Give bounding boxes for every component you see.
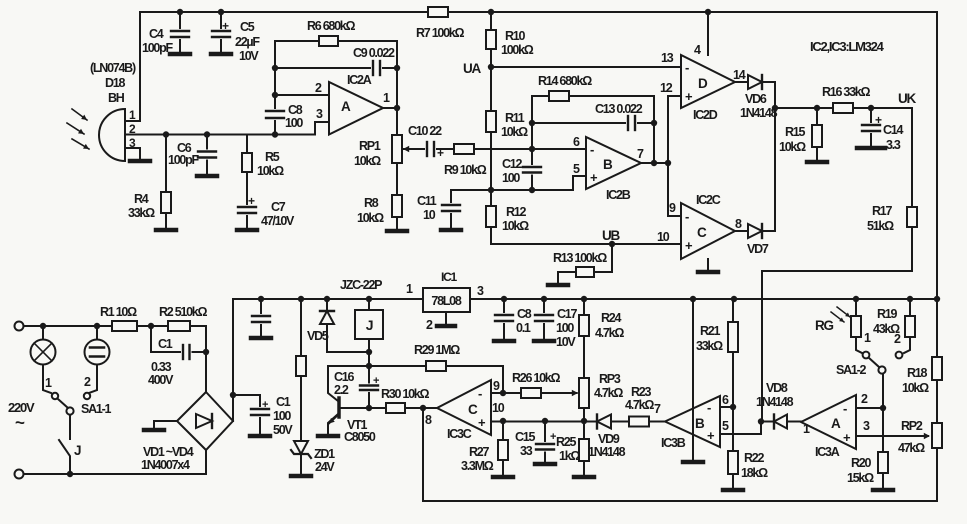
svg-text:C5: C5 (240, 20, 255, 34)
svg-text:4.7kΩ: 4.7kΩ (594, 386, 623, 400)
svg-text:R20: R20 (851, 456, 871, 470)
svg-text:C15: C15 (515, 430, 535, 444)
svg-text:C16: C16 (334, 370, 354, 384)
svg-text:4.7kΩ: 4.7kΩ (595, 326, 624, 340)
svg-text:R13 100kΩ: R13 100kΩ (553, 251, 607, 265)
svg-text:R25: R25 (556, 435, 576, 449)
svg-text:+: + (550, 431, 556, 443)
svg-text:C1: C1 (158, 337, 173, 351)
svg-text:100: 100 (285, 116, 303, 130)
svg-text:1kΩ: 1kΩ (559, 449, 580, 463)
svg-text:ZD1: ZD1 (314, 447, 335, 461)
svg-text:VD5: VD5 (307, 329, 329, 343)
svg-text:R6 680kΩ: R6 680kΩ (307, 19, 356, 33)
svg-text:24V: 24V (315, 460, 335, 474)
svg-text:33: 33 (520, 444, 533, 458)
svg-text:14: 14 (733, 68, 746, 82)
svg-text:100: 100 (556, 321, 574, 335)
svg-text:VD7: VD7 (747, 242, 769, 256)
svg-text:R27: R27 (469, 445, 489, 459)
svg-text:+: + (373, 375, 379, 387)
svg-text:VD1 ~VD4: VD1 ~VD4 (143, 445, 194, 459)
svg-text:RP2: RP2 (901, 419, 923, 433)
svg-text:2.2: 2.2 (334, 383, 349, 397)
svg-text:400V: 400V (148, 373, 174, 387)
svg-text:R18: R18 (907, 366, 927, 380)
svg-text:78L08: 78L08 (431, 294, 461, 308)
svg-text:~: ~ (15, 413, 25, 432)
svg-text:C10 22: C10 22 (408, 124, 442, 138)
svg-text:C9 0.022: C9 0.022 (353, 46, 395, 60)
svg-text:IC2B: IC2B (606, 188, 631, 202)
svg-text:BH: BH (108, 91, 125, 105)
svg-text:UA: UA (463, 61, 481, 76)
svg-text:IC3C: IC3C (447, 427, 472, 441)
svg-text:IC2,IC3:LM324: IC2,IC3:LM324 (810, 39, 885, 54)
svg-text:R7 100kΩ: R7 100kΩ (416, 26, 465, 40)
svg-text:JZC-22P: JZC-22P (340, 278, 382, 292)
svg-text:C1: C1 (276, 395, 291, 409)
svg-text:IC1: IC1 (441, 270, 458, 284)
svg-text:1N4148: 1N4148 (740, 106, 778, 120)
svg-text:R15: R15 (785, 125, 805, 139)
svg-text:SA1-1: SA1-1 (81, 402, 111, 416)
svg-text:J: J (366, 317, 373, 333)
svg-text:IC2D: IC2D (693, 108, 718, 122)
svg-text:10kΩ: 10kΩ (257, 164, 284, 178)
svg-text:12: 12 (660, 81, 673, 95)
svg-text:10: 10 (423, 208, 436, 222)
svg-text:C4: C4 (149, 27, 164, 41)
svg-text:13: 13 (661, 51, 674, 65)
svg-text:50V: 50V (273, 423, 293, 437)
svg-text:C8050: C8050 (344, 430, 376, 444)
svg-text:R19: R19 (877, 307, 897, 321)
svg-text:R24: R24 (601, 311, 621, 325)
svg-text:10: 10 (657, 230, 670, 244)
svg-text:10kΩ: 10kΩ (357, 211, 384, 225)
svg-text:(LN074B): (LN074B) (90, 61, 136, 75)
svg-text:C11: C11 (417, 194, 437, 208)
svg-text:51kΩ: 51kΩ (867, 219, 894, 233)
svg-text:IC2C: IC2C (696, 193, 721, 207)
svg-text:3.3: 3.3 (886, 138, 901, 152)
svg-text:100pF: 100pF (142, 41, 173, 55)
svg-text:R23: R23 (631, 385, 651, 399)
svg-text:10kΩ: 10kΩ (354, 154, 381, 168)
svg-text:33kΩ: 33kΩ (128, 206, 155, 220)
svg-text:10V: 10V (556, 335, 576, 349)
svg-text:1N4007x4: 1N4007x4 (141, 458, 190, 472)
svg-text:RP1: RP1 (359, 139, 381, 153)
svg-text:R8: R8 (364, 196, 379, 210)
svg-text:33kΩ: 33kΩ (696, 339, 723, 353)
svg-text:+: + (262, 399, 268, 411)
svg-text:R22: R22 (744, 451, 764, 465)
svg-text:SA1-2: SA1-2 (836, 363, 866, 377)
svg-text:IC2A: IC2A (347, 73, 372, 87)
svg-text:R30 10kΩ: R30 10kΩ (381, 387, 430, 401)
svg-text:J: J (74, 443, 81, 458)
svg-text:47kΩ: 47kΩ (898, 441, 925, 455)
svg-text:10V: 10V (239, 49, 259, 63)
svg-text:100pF: 100pF (168, 153, 199, 167)
svg-text:RP3: RP3 (599, 372, 621, 386)
svg-text:47/10V: 47/10V (261, 214, 295, 228)
svg-text:R14 680kΩ: R14 680kΩ (538, 74, 592, 88)
svg-text:100kΩ: 100kΩ (501, 43, 534, 57)
svg-text:3.3MΩ: 3.3MΩ (461, 459, 494, 473)
svg-text:D18: D18 (105, 76, 125, 90)
svg-text:R5: R5 (265, 150, 280, 164)
svg-text:0.33: 0.33 (151, 360, 172, 374)
svg-text:R4: R4 (134, 192, 149, 206)
svg-text:1N4148: 1N4148 (588, 445, 626, 459)
svg-text:18kΩ: 18kΩ (741, 466, 768, 480)
svg-text:100: 100 (502, 171, 520, 185)
svg-text:R26 10kΩ: R26 10kΩ (512, 371, 561, 385)
svg-text:R10: R10 (505, 29, 525, 43)
svg-text:VD8: VD8 (766, 381, 788, 395)
svg-text:RG: RG (815, 318, 833, 333)
svg-text:100: 100 (273, 409, 291, 423)
svg-text:R12: R12 (506, 205, 526, 219)
svg-text:10kΩ: 10kΩ (902, 381, 929, 395)
svg-text:10kΩ: 10kΩ (502, 219, 529, 233)
svg-text:R9 10kΩ: R9 10kΩ (444, 163, 487, 177)
svg-text:0.1: 0.1 (516, 321, 531, 335)
svg-text:C7: C7 (271, 200, 286, 214)
svg-text:IC3B: IC3B (661, 436, 686, 450)
svg-text:R17: R17 (872, 204, 892, 218)
svg-text:C13 0.022: C13 0.022 (595, 102, 643, 116)
svg-text:10kΩ: 10kΩ (779, 140, 806, 154)
svg-text:C14: C14 (883, 123, 903, 137)
svg-text:IC3A: IC3A (815, 445, 840, 459)
svg-text:R11: R11 (505, 111, 525, 125)
svg-text:R1 10Ω: R1 10Ω (100, 305, 137, 319)
svg-text:22µF: 22µF (235, 35, 260, 49)
svg-text:C8: C8 (288, 103, 303, 117)
svg-text:15kΩ: 15kΩ (847, 471, 874, 485)
svg-text:C8: C8 (517, 307, 532, 321)
svg-text:4.7kΩ: 4.7kΩ (625, 398, 654, 412)
svg-text:10kΩ: 10kΩ (501, 125, 528, 139)
svg-text:R21: R21 (700, 324, 720, 338)
svg-text:R16 33kΩ: R16 33kΩ (822, 85, 871, 99)
svg-text:10: 10 (492, 401, 505, 415)
svg-text:R29 1MΩ: R29 1MΩ (414, 343, 460, 357)
svg-text:R2 510kΩ: R2 510kΩ (159, 305, 208, 319)
svg-text:UB: UB (602, 228, 620, 243)
svg-text:C17: C17 (557, 307, 577, 321)
svg-text:UK: UK (898, 91, 916, 106)
svg-text:VD9: VD9 (598, 432, 620, 446)
svg-text:VD6: VD6 (745, 92, 767, 106)
svg-text:1N4148: 1N4148 (756, 395, 794, 409)
svg-text:C12: C12 (502, 157, 522, 171)
